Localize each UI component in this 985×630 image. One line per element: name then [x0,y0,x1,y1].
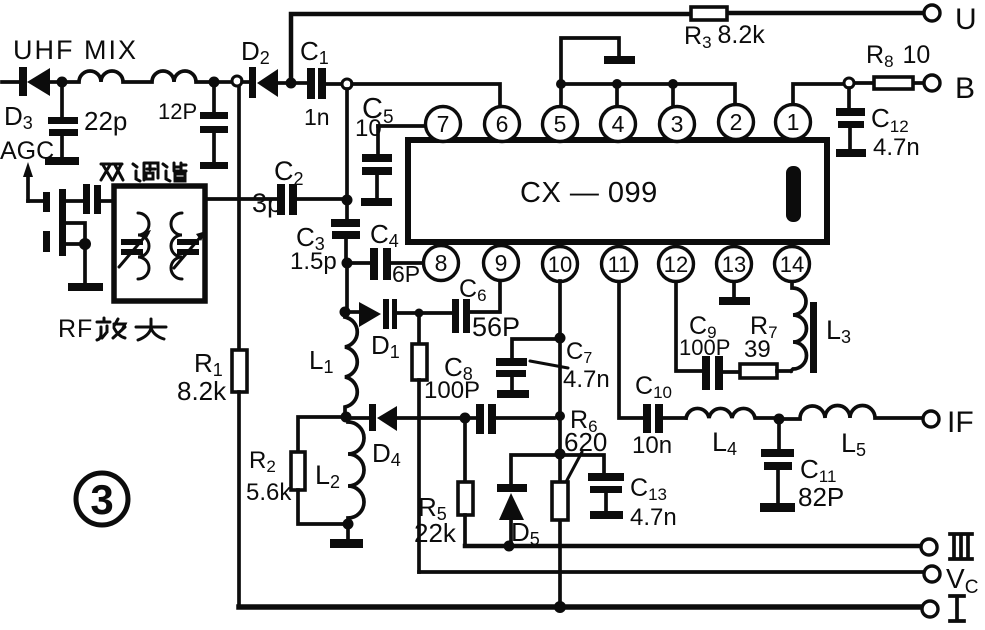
svg-text:39: 39 [744,336,771,363]
svg-text:3p: 3p [252,188,282,218]
svg-text:4.7n: 4.7n [563,366,610,393]
label C1 [300,36,329,68]
node C3/C4/L1 junction [342,258,353,269]
label C9 100P [679,312,730,360]
ground L2 [330,524,363,548]
label C8 100P [424,352,480,404]
wire bracket above pin5 [561,38,619,84]
pin 2 [719,105,754,140]
svg-text:AGC: AGC [0,137,54,165]
node L4/L5/C11 junction [774,414,785,425]
node L1/L2/D4/R2 junction [341,412,352,423]
pin 7 [426,107,461,142]
node D1/L1 junction [340,307,351,318]
resistor R8 [874,77,913,89]
wire top rail to U [291,13,923,83]
capacitor C2 [277,184,342,215]
svg-text:10: 10 [355,115,382,142]
node C8/pin10 junction [555,411,565,421]
label 22p [84,106,127,136]
capacitor C4 [352,248,423,280]
svg-text:82P: 82P [798,482,844,512]
svg-text:100P: 100P [679,335,730,360]
wire R2 branch [298,417,341,452]
label C10 10n [632,372,672,459]
node D2/C1/top-rail junction [286,78,297,89]
transistor Q1 gate2 [43,231,50,252]
node D1/C6/R4 junction [415,309,424,318]
node C2 junction [342,195,353,206]
wire D2-node down to R1 [237,87,241,350]
label L2 [315,460,340,492]
resistor R3 [691,7,727,20]
node Q1 source [79,238,91,250]
svg-text:13: 13 [722,252,746,277]
node R6 bottom on I rail [554,601,566,613]
capacitor C13 [588,473,624,519]
label 双调谐 (double tuned) [101,163,186,181]
diode D5 [497,484,527,541]
svg-text:12: 12 [664,252,688,277]
label D1 [371,330,400,362]
svg-text:9: 9 [495,250,508,276]
node D5 bottom on III rail [504,541,515,552]
wire C5 to pin7 [378,124,425,128]
wire C1 node down to C2 node [345,89,349,196]
wire C3 node down to D1 node [345,268,349,308]
label C5 10 [355,93,394,142]
diode D3 [19,67,58,96]
svg-text:10n: 10n [632,432,672,459]
svg-text:U: U [955,3,977,36]
diode D1 (varactor) [350,299,414,329]
inductor L4 [686,408,774,418]
label RF 放大 [58,315,166,343]
label AGC [0,137,54,165]
node pin3 top [668,79,678,89]
wire C7 branch [512,339,555,358]
pin 8 [424,246,459,281]
inductor L5 [784,406,922,420]
pin 9 [484,246,519,281]
capacitor C3 [331,219,360,258]
terminal U [924,3,977,36]
svg-text:RF: RF [58,315,93,343]
wire Q1 source [66,223,85,244]
label D5 [511,517,540,549]
wire I bottom rail [239,604,921,610]
svg-text:5.6k: 5.6k [246,479,292,506]
svg-text:4: 4 [612,111,625,137]
node D5 branch on pin10 line [555,449,566,460]
label D3 [4,101,33,133]
wire Vc rail [419,570,923,574]
node B (coil / 12P junction) [209,77,220,88]
wire Q1 drain [66,199,83,203]
svg-text:CX — 099: CX — 099 [520,177,658,209]
inductor tuned left coil [138,213,149,279]
label C6 56P [459,275,520,342]
wire III rail [465,544,920,549]
svg-text:B: B [955,72,975,105]
svg-text:3: 3 [90,476,113,523]
svg-text:12P: 12P [158,99,197,124]
resistor R1 [232,350,247,392]
svg-text:14: 14 [780,252,804,277]
svg-text:6: 6 [496,111,509,137]
svg-text:1: 1 [787,109,800,135]
capacitor C8 [470,404,554,434]
label D2 [241,36,270,68]
label L4 [712,427,737,459]
ground pin13 [719,297,750,305]
label R1 8.2k [177,348,227,406]
inductor L2 [348,422,364,518]
capacitor 12P [200,87,228,169]
pin 5 [543,107,578,142]
wire R4 down to Vc corner [417,380,421,572]
svg-text:5: 5 [554,111,567,137]
label C11 82P [798,454,844,512]
label UHF MIX [13,35,138,65]
node D4/C8/R5 junction [460,413,471,424]
node open circle pin1/R8/C12 [844,78,854,88]
label 12P [158,99,197,124]
inductor L1 [345,317,357,413]
svg-text:22p: 22p [84,106,127,136]
label R3 8.2k [684,21,765,52]
svg-text:4.7n: 4.7n [873,134,920,161]
pin 13 [717,247,752,282]
svg-text:1n: 1n [304,104,330,130]
capacitor C9 [702,356,740,390]
pin 11 [602,247,637,282]
node L2 bottom [343,519,354,530]
label C12 4.7n [871,103,920,161]
box double tuned circuit [114,186,205,301]
svg-text:100P: 100P [424,377,480,404]
pin 1 [776,105,811,140]
node pin5 top [556,79,566,89]
wire box output to C2 [205,197,277,201]
capacitor C7 [496,358,529,398]
resistor R2 [291,452,305,490]
label L5 [841,428,866,460]
wire antenna input [2,80,19,84]
terminal Vc [924,563,978,598]
label D4 [372,438,401,470]
capacitor Q1 output coupling [83,184,114,214]
wire D5/C13 branch [511,455,604,484]
terminal III [921,534,972,559]
AGC arrow [23,162,43,201]
svg-text:4.7n: 4.7n [630,504,677,531]
capacitor C10 [643,404,686,433]
figure number 3 [76,473,128,525]
wire D1 node down to R4 [417,317,421,344]
svg-text:6P: 6P [392,261,420,287]
svg-text:UHF MIX: UHF MIX [13,35,138,65]
IC U1 CX-099 [408,140,827,242]
svg-text:22k: 22k [414,518,457,548]
pin 14 [775,247,810,282]
wire pin12 to C9 [676,282,702,371]
svg-text:3: 3 [671,111,684,137]
wire C1 node to pin6 and top bus [352,84,735,106]
wire pin1 to R8 [793,83,923,104]
label R2 5.6k [246,447,292,506]
capacitor C11 [760,424,795,512]
capacitor C5 [361,126,392,206]
pin 12 [659,247,694,282]
wire to D2 [219,80,231,84]
svg-text:2: 2 [730,109,743,135]
label L3 [826,315,851,347]
label C3 1.5p [290,222,337,275]
resistor R7 [740,364,791,378]
inductor tuned right coil [171,213,182,279]
label R6 620 with pointer [564,406,607,482]
inductor L3 [791,282,806,371]
capacitor C1 [296,68,341,99]
wire R1 down to bottom rail [237,392,241,607]
ground bracket bar [604,56,635,64]
resistor R5 [458,423,473,545]
capacitor 22p [45,87,79,165]
svg-text:R38.2k: R38.2k [684,21,765,52]
node open circle before D2 [232,76,242,86]
label C2 [274,156,304,189]
pin 10 [543,247,578,282]
transistor Q1 channel [59,189,66,256]
capacitor C6 [423,282,500,333]
label C4 6P [370,219,420,287]
node open circle after C1 [342,79,352,89]
node A (D3 / 22p junction) [57,77,68,88]
transistor Q1 gate1 [43,192,50,212]
capacitor tuned right (variable) [174,231,206,268]
label C7 4.7n with pointer [530,338,610,393]
wire pin11 to C10 [619,282,643,418]
label 3p [252,188,282,218]
capacitor tuned left (variable) [119,230,151,267]
label L1 [309,345,333,377]
label R5 22k [414,492,457,548]
svg-text:11: 11 [608,252,631,277]
terminal IF [923,406,974,439]
label C13 4.7n [630,474,677,531]
pin 3 [660,107,695,142]
wire pin5 pin4 pin3 stubs [561,84,673,106]
wire C2 node to C3 [345,205,349,219]
label R7 39 [744,312,778,363]
svg-text:8: 8 [435,250,448,276]
resistor R4 (unlabelled) [412,344,427,380]
capacitor C12 [836,88,866,157]
resistor R6 [552,482,568,520]
pin 4 [601,107,636,142]
wire pin13 stub [732,282,736,297]
wire pin10 vertical [558,281,562,605]
pin 6 [485,107,520,142]
node pin4 top [612,79,622,89]
label R8 10 [866,41,930,71]
diode D4 [351,404,460,431]
core bar L3 [810,302,817,373]
diode D2 (varactor) [242,67,288,98]
svg-text:8.2k: 8.2k [177,376,227,406]
ground Q1 source [68,250,103,291]
label 1n [304,104,330,130]
wire R2 bottom to L2 bottom [298,490,343,524]
inductor UHF mixer coil [67,71,214,82]
terminal I [922,596,964,621]
svg-text:7: 7 [437,111,450,137]
svg-text:1.5p: 1.5p [290,248,337,275]
svg-text:IF: IF [947,406,974,439]
node C7 branch on pin10 line [555,333,566,344]
svg-text:620: 620 [564,427,607,457]
terminal B [924,72,975,105]
svg-text:10: 10 [548,252,572,277]
